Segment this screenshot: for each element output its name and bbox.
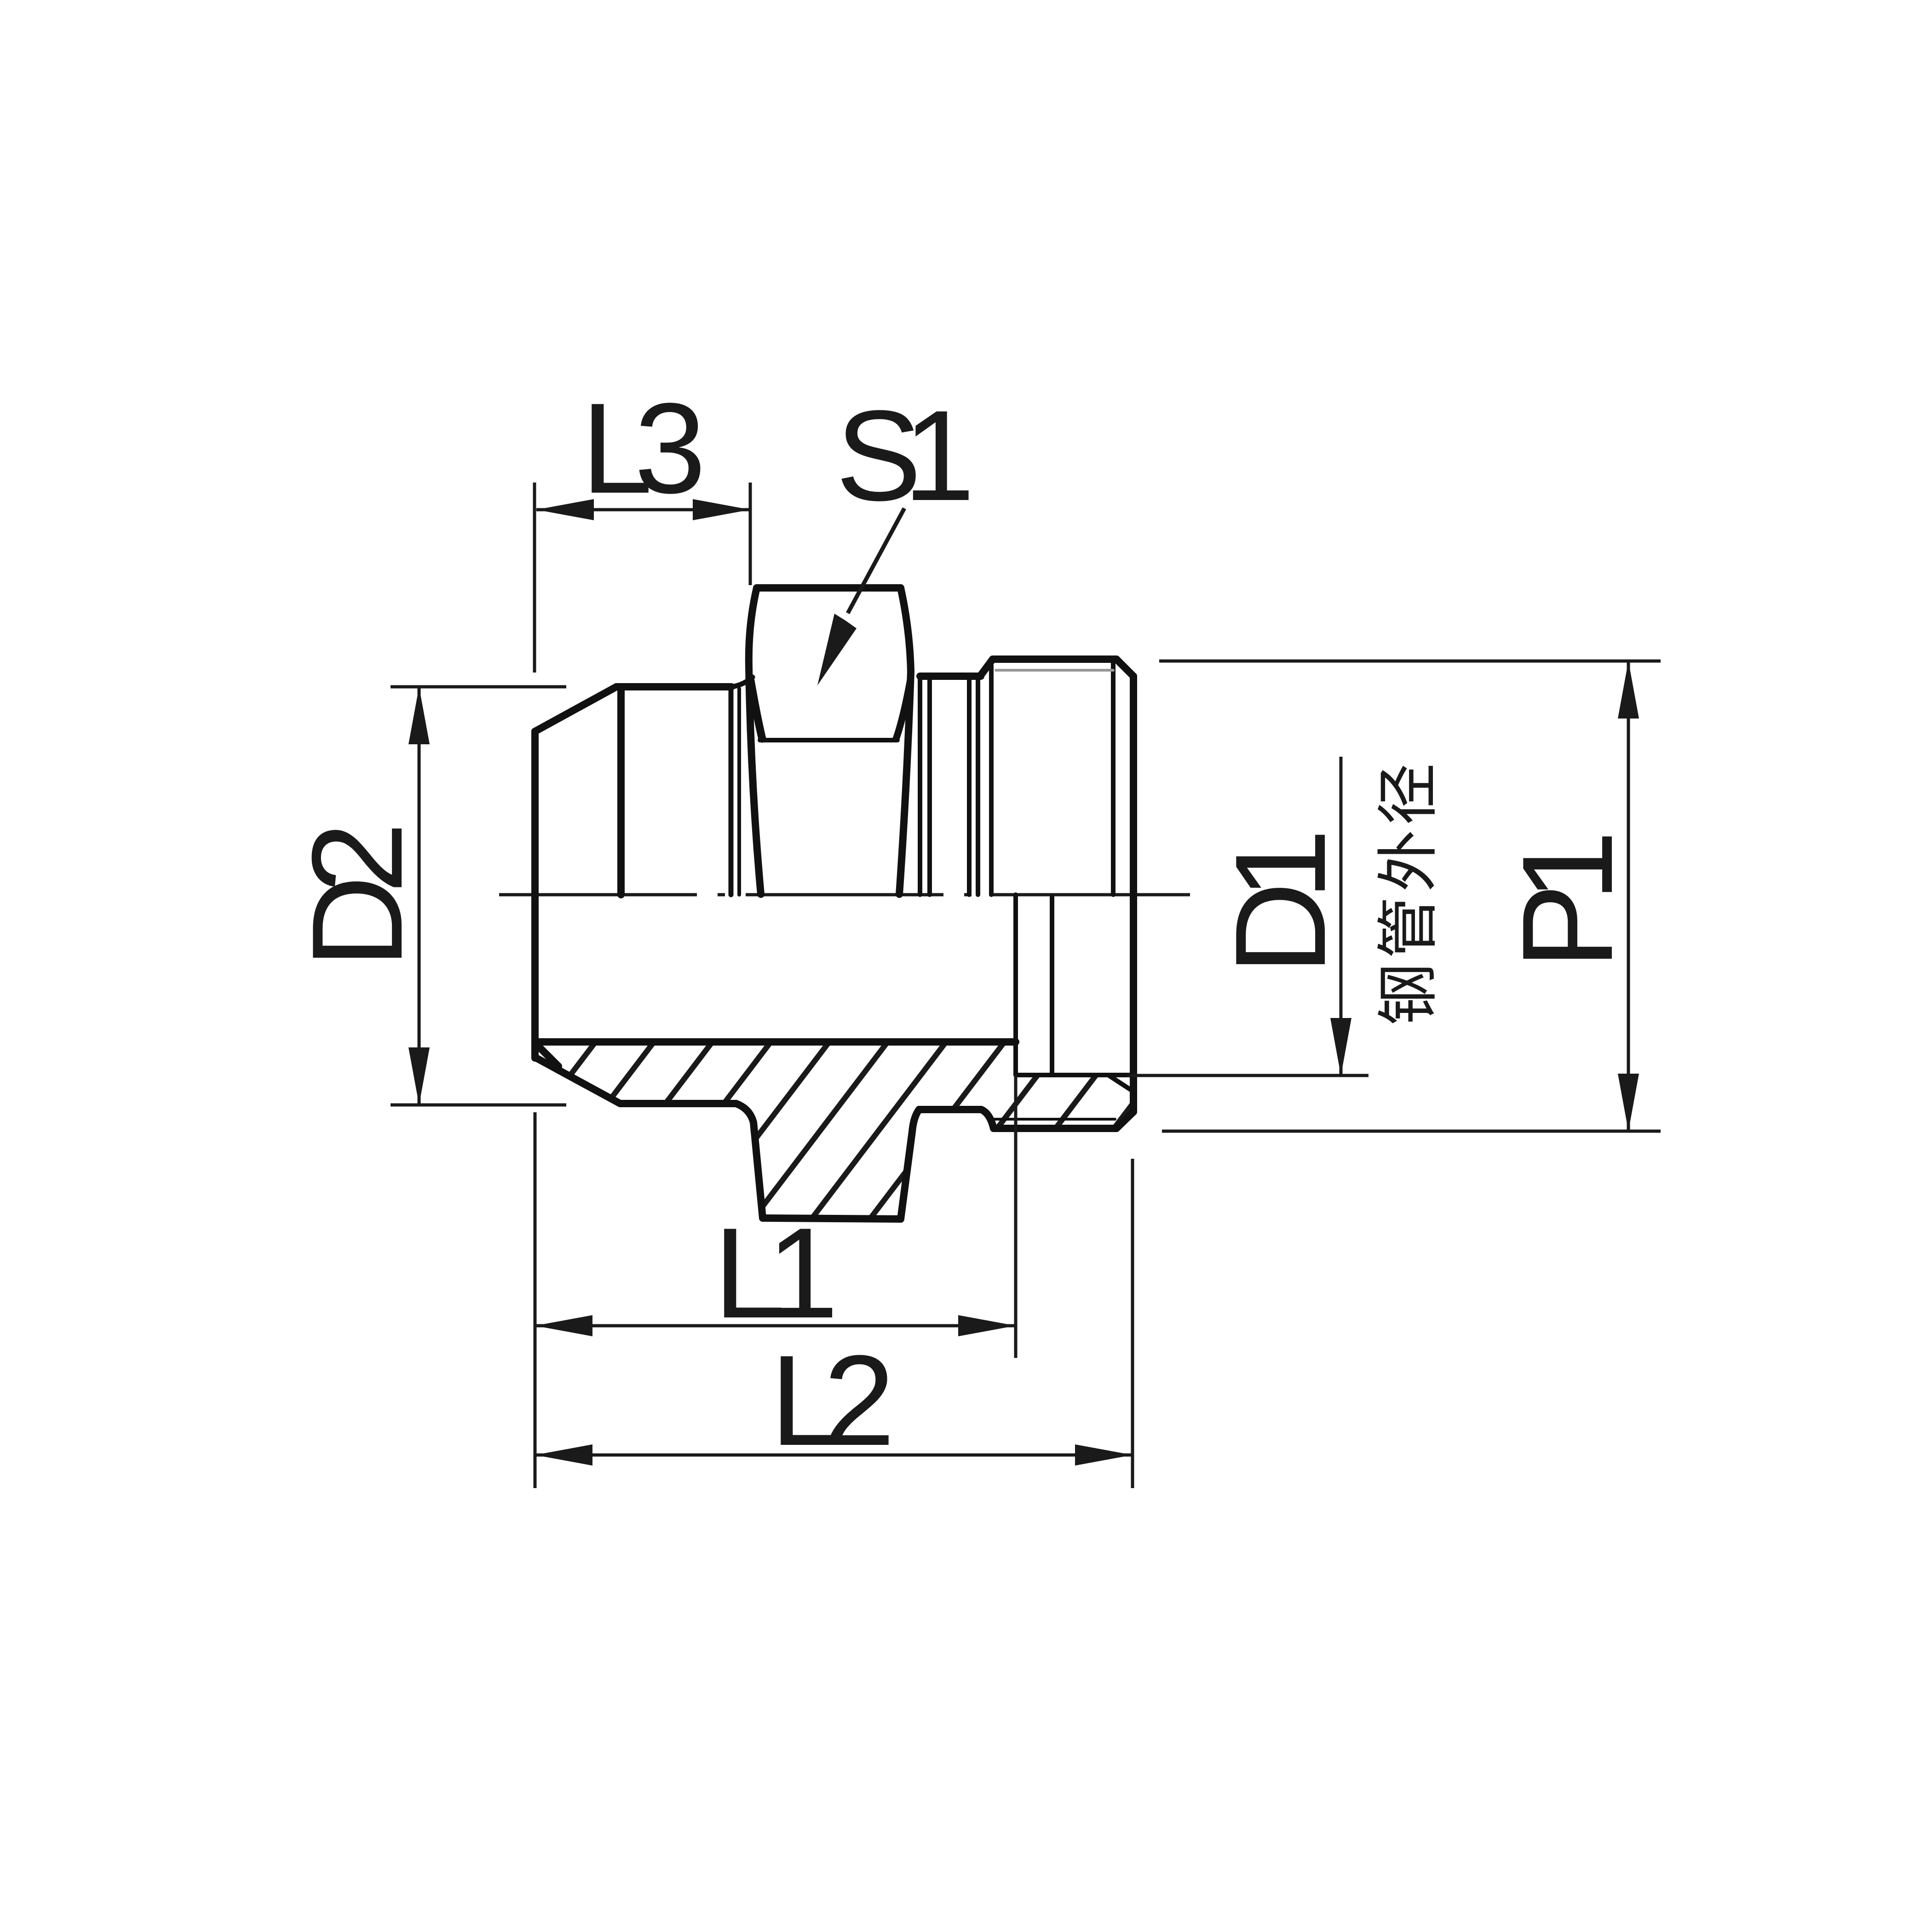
- washer face left inner: [737, 689, 741, 895]
- chamfer vertical right: [1111, 662, 1115, 895]
- svg-text:L2: L2: [770, 1329, 890, 1472]
- svg-text:L3: L3: [581, 377, 701, 520]
- L2 arrow left: [535, 1444, 592, 1466]
- L2 dim: [535, 1454, 1133, 1457]
- S1 leader: [848, 508, 904, 613]
- body top: [616, 683, 731, 690]
- hex corner arc left: [751, 681, 762, 739]
- bottom mirrored flare slant: [536, 1058, 620, 1104]
- flare seat wedge: [535, 1043, 558, 1066]
- washer face left outer: [729, 689, 734, 895]
- L3 dim: [536, 508, 750, 512]
- svg-text:S1: S1: [836, 384, 970, 528]
- D1 line + ext: [1340, 757, 1343, 1075]
- hex top: [757, 584, 901, 592]
- flare base vertical: [617, 687, 625, 895]
- thread top: [993, 655, 1116, 663]
- thread bottom: [994, 1125, 1116, 1132]
- D1 arrow down: [1330, 1018, 1351, 1075]
- inner vertical V2: [1050, 897, 1054, 1075]
- neck top: [920, 673, 981, 680]
- D2 dim: [418, 687, 421, 1105]
- tab bottom: [763, 1218, 901, 1219]
- thread relief verticals: [967, 676, 972, 895]
- flare slant top: [535, 687, 616, 731]
- L2 arrow right: [1075, 1444, 1133, 1466]
- counterbore line: [1016, 1073, 1131, 1077]
- P1 arrow down: [1618, 1074, 1639, 1131]
- L1 arrow right: [958, 1315, 1016, 1336]
- bottom surface: [620, 1100, 736, 1107]
- thread start vertical: [989, 666, 994, 895]
- hatching section lines: [443, 1012, 1378, 1242]
- centerline: [499, 893, 1201, 897]
- hex corner arc right: [896, 680, 910, 739]
- counterbore shoulder V1: [1013, 895, 1018, 1075]
- svg-text:D1: D1: [1209, 834, 1352, 975]
- P1 extensions: [1159, 660, 1661, 663]
- hex right edge: [899, 588, 911, 894]
- groove bottom: [919, 1106, 981, 1113]
- L1 arrow left: [535, 1315, 592, 1336]
- P1 arrow up: [1618, 661, 1639, 719]
- svg-text:钢管外径: 钢管外径: [1374, 759, 1443, 1025]
- bore line: [538, 1038, 1016, 1046]
- arrowheads: [408, 499, 1639, 1466]
- P1 dim: [1627, 661, 1630, 1131]
- L1 dim: [535, 1324, 1016, 1328]
- svg-text:D2: D2: [286, 827, 429, 968]
- thread crest gray top: [996, 669, 1113, 672]
- tab left edge: [736, 1104, 763, 1218]
- tab right edge: [901, 1110, 919, 1219]
- left shared extension: [534, 1112, 537, 1488]
- medium strokes: [732, 662, 1131, 1119]
- L3 arrow right: [693, 499, 750, 520]
- end face: [1130, 676, 1137, 1112]
- left tip edge: [531, 731, 539, 1058]
- L2 ext right: [1131, 1159, 1134, 1488]
- thread root thin bottom: [994, 1118, 1115, 1121]
- right chamfer top: [1116, 659, 1133, 676]
- step chamfer: [981, 1110, 994, 1128]
- L3 arrow left: [536, 499, 594, 520]
- main outline thick: [535, 588, 1133, 1219]
- D2 arrow down: [408, 1047, 430, 1105]
- hex left edge: [749, 588, 761, 894]
- L3 extensions: [533, 483, 536, 673]
- D2 arrow up: [408, 687, 430, 744]
- D2 extensions: [391, 685, 566, 689]
- S1 leader arrowhead: [817, 614, 857, 685]
- bottom chamfer: [1116, 1112, 1133, 1128]
- L1 ext right: [1014, 1075, 1018, 1358]
- washer face right pair: [918, 676, 922, 895]
- fillet body top to hex: [732, 677, 753, 687]
- dimension lines: [391, 483, 1661, 1488]
- svg-text:L1: L1: [713, 1202, 833, 1345]
- svg-text:P1: P1: [1496, 835, 1639, 969]
- hex facet line: [760, 738, 897, 742]
- chamfer to thread: [981, 659, 993, 675]
- counterbore mouth chamfer: [1110, 1076, 1131, 1090]
